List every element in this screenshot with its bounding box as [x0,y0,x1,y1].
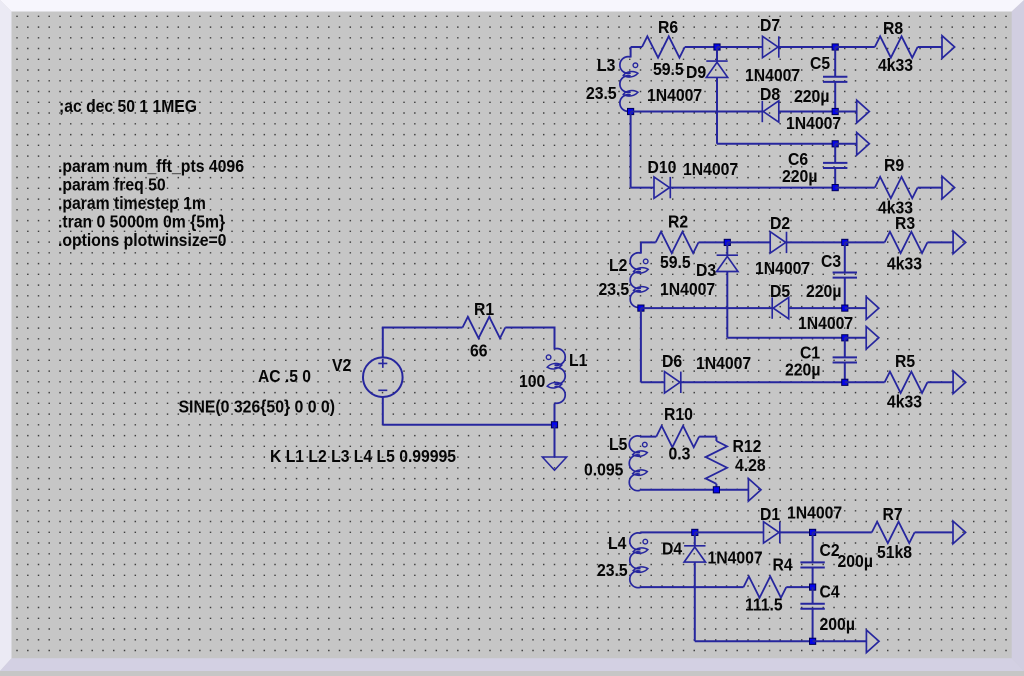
wire C3 top [844,242,846,272]
svg-text:D3: D3 [696,260,716,280]
wire C4 top [812,587,814,604]
svg-text:R7: R7 [883,504,903,524]
svg-text:.options plotwinsize=0: .options plotwinsize=0 [58,230,227,250]
wire node to R8 [835,46,875,48]
svg-text:0.095: 0.095 [584,460,624,480]
bezel left [0,0,12,671]
port arrow mid row L2 [866,327,879,350]
svg-text:V2: V2 [332,355,352,375]
node C3/D5 with port [842,305,848,311]
svg-text:1N4007: 1N4007 [786,113,841,133]
svg-text:D2: D2 [770,213,790,233]
bezel top [0,0,1024,12]
wire L3 top lead [630,47,632,58]
svg-text:AC .5 0: AC .5 0 [258,366,311,386]
svg-text:200µ: 200µ [820,614,855,634]
svg-text:D7: D7 [760,15,780,35]
wire L3 bottom to D8 [631,111,763,113]
svg-text:R5: R5 [895,351,915,371]
wire D5 to C3 bottom node [789,307,845,309]
svg-text:1N4007: 1N4007 [798,313,853,333]
svg-text:1N4007: 1N4007 [696,353,751,373]
svg-text:.param timestep 1m: .param timestep 1m [58,193,206,213]
wire R3 to port [927,241,953,243]
svg-text:100: 100 [519,371,546,391]
wire node to R3 [845,241,885,243]
wire R4 to C2 bottom node [786,586,812,588]
capacitor C6 [823,162,847,164]
svg-text:.tran 0 5000m 0m {5m}: .tran 0 5000m 0m {5m} [58,212,225,232]
svg-text:51k8: 51k8 [877,542,912,562]
wire D3 down to mid row [726,272,728,338]
wire L1 bottom lead [554,404,556,425]
wire L1 top lead [554,327,556,350]
voltage source V2 [363,357,403,397]
wire mid row D9 to C6 [717,143,835,145]
resistor R4 [744,576,787,597]
svg-text:C3: C3 [821,251,841,271]
diode D4 [684,547,705,562]
ground [542,457,566,470]
node C6 bottom / R9 [832,185,838,191]
svg-text:L1: L1 [569,350,588,370]
wire D4 anode drop [694,532,696,545]
wire L5 to R10 [640,436,656,438]
wire D8 to C5 bottom node [779,111,835,113]
wire L4 to D4 node [641,531,695,533]
inductor L3 [620,57,631,112]
wire R9 to port [918,187,942,189]
port arrow bottom row [866,630,879,653]
svg-text:K L1 L2 L3 L4 L5 0.99995: K L1 L2 L3 L4 L5 0.99995 [270,446,456,466]
svg-text:23.5: 23.5 [586,83,617,103]
svg-text:SINE(0 326{50} 0 0 0): SINE(0 326{50} 0 0 0) [179,397,336,417]
wire R2 to D3 node [699,241,728,243]
svg-text:D5: D5 [770,281,790,301]
wire R12 top lead [715,437,717,441]
wire R8 to port [918,46,942,48]
resistor R5 [885,372,928,393]
port arrow after R7 [953,521,966,544]
port arrow after D8 [857,100,870,123]
wire node to D7 [717,46,763,48]
svg-text:L3: L3 [597,55,616,75]
svg-text:220µ: 220µ [785,360,820,380]
wire node to port row2 [835,111,857,113]
resistor R10 [656,426,699,447]
svg-text:.param freq 50: .param freq 50 [58,175,166,195]
wire L2 bottom to D5 [641,307,772,309]
svg-text:1N4007: 1N4007 [660,279,715,299]
wire C5 top [834,47,836,77]
wire L3 bottom drop [630,112,632,188]
node D1/C2/R7 [810,529,816,535]
wire C6 top [834,144,836,163]
svg-text:L2: L2 [609,255,628,275]
node C1 bottom / R5 [842,379,848,385]
svg-text:C4: C4 [820,582,840,602]
wire D4 down to bottom row [694,562,696,641]
wire D9 anode drop [716,47,718,61]
wire to D6 [641,381,665,383]
capacitor C5 [823,76,847,78]
wire C1 top [844,338,846,358]
svg-text:R1: R1 [474,299,494,319]
capacitor C2 [800,561,824,563]
diode D9 [706,62,727,77]
wire node to port [813,640,867,642]
capacitor C1 [833,356,857,358]
wire D2 to C3 node [787,241,845,243]
svg-text:4k33: 4k33 [887,254,922,274]
wire L2 to R2 [641,241,656,243]
wire R5 to port [927,381,953,383]
svg-text:0.3: 0.3 [669,444,691,464]
svg-text:1N4007: 1N4007 [745,65,800,85]
wire D6 to C1 bottom node [681,381,845,383]
svg-text:1N4007: 1N4007 [683,159,738,179]
node mid row C6 top [832,141,838,147]
svg-text:R10: R10 [664,404,693,424]
svg-text:;ac dec 50 1 1MEG: ;ac dec 50 1 1MEG [59,96,197,116]
wire L2 top lead [640,242,642,253]
svg-text:220µ: 220µ [782,166,817,186]
wire node to R7 [813,531,872,533]
wire R6 to D9 node [685,46,717,48]
node at L1 bottom [551,422,557,428]
svg-text:D9: D9 [686,62,706,82]
svg-text:D1: D1 [760,504,780,524]
wire C5 bottom [834,82,836,112]
node D7/C5/R8 [832,44,838,50]
svg-text:1N4007: 1N4007 [647,85,702,105]
svg-text:4k33: 4k33 [887,392,922,412]
wire D9 down to mid row [716,77,718,143]
svg-text:23.5: 23.5 [597,560,628,580]
svg-text:59.5: 59.5 [660,252,691,272]
wire C3 bottom [844,278,846,309]
svg-text:23.5: 23.5 [599,279,630,299]
svg-text:D8: D8 [760,84,780,104]
svg-text:L4: L4 [608,533,627,553]
svg-text:R2: R2 [668,212,688,232]
svg-text:L5: L5 [609,434,628,454]
bezel bottom [0,658,1024,671]
wire node to R5 [845,381,885,383]
wire bottom row D4 to C4 [695,640,813,642]
diode D7 [763,36,779,57]
wire D3 anode drop [726,242,728,255]
wire L4 bottom to R4 [641,586,744,588]
resistor R9 [875,177,918,198]
resistor R8 [875,36,918,57]
wire V2 bottom [382,397,384,425]
svg-text:59.5: 59.5 [653,59,684,79]
wire R1 to L1 [505,327,554,329]
port arrow after R3 [953,231,966,254]
node L2 bottom [638,305,644,311]
wire V2 top [382,328,384,358]
port arrow after R5 [953,371,966,394]
node C4 bottom [810,638,816,644]
wire node to R9 [835,187,875,189]
svg-text:220µ: 220µ [806,281,841,301]
wire R10 to R12 [699,436,716,438]
svg-text:D10: D10 [648,157,677,177]
svg-text:1N4007: 1N4007 [708,548,763,568]
diode D1 [764,522,780,543]
node R2/D3/D2 [724,239,730,245]
svg-text:200µ: 200µ [838,551,873,571]
svg-text:1N4007: 1N4007 [755,258,810,278]
wire R7 to port [915,531,953,533]
wire node to port row3 [835,143,857,145]
resistor R6 [642,36,685,57]
capacitor C3 [833,272,857,274]
resistor R1 [463,317,506,338]
diode D10 [654,177,670,198]
node C5/D8 with port [832,108,838,114]
inductor L2 [630,253,641,308]
diode D8 [763,101,779,122]
diode D3 [717,256,738,271]
wire C6 bottom [834,168,836,188]
port arrow after R8 [942,36,955,59]
node R12 bottom [713,487,719,493]
node R6/D9/D7 [714,44,720,50]
port arrow L5 row [748,479,761,502]
svg-text:D4: D4 [662,539,682,559]
svg-text:D6: D6 [662,351,682,371]
wire D7 to C5 node [779,46,835,48]
wire node to D1 [695,531,764,533]
node C2/R4/C4 [810,584,816,590]
wire node to port [845,307,866,309]
svg-text:R4: R4 [773,555,793,575]
node L3 bottom [628,108,634,114]
wire D10 to C6 bottom node [670,187,835,189]
svg-text:.param num_fft_pts 4096: .param num_fft_pts 4096 [58,156,244,176]
capacitor C4 [800,603,824,605]
wire L5 bottom row [640,489,748,491]
wire D1 to C2 node [780,531,813,533]
resistor R3 [885,232,928,253]
wire C1 bottom [844,363,846,383]
svg-text:C5: C5 [810,53,830,73]
wire C2 top [812,532,814,562]
wire R12 bottom lead [715,484,717,490]
diode D5 [773,297,789,318]
svg-text:1N4007: 1N4007 [787,503,842,523]
port arrow after D5 [866,297,879,320]
wire node to port [845,337,866,339]
wire C4 bottom [812,609,814,642]
wire bottom row V2 to L1 [383,424,555,426]
svg-text:R12: R12 [733,436,762,456]
resistor R7 [872,522,915,543]
resistor R12 [706,441,727,484]
wire mid row D3 to C1 [727,337,845,339]
wire node to D2 [727,241,770,243]
inductor L1 [555,349,566,404]
svg-text:4k33: 4k33 [878,55,913,75]
svg-text:220µ: 220µ [794,86,829,106]
diode D6 [665,372,681,393]
inductor L4 [630,533,641,588]
svg-text:R8: R8 [883,18,903,38]
svg-text:R3: R3 [895,213,915,233]
node mid row C1 top [842,335,848,341]
svg-text:R9: R9 [884,155,904,175]
svg-text:R6: R6 [658,17,678,37]
wire L2 bottom drop [640,308,642,382]
wire L4 top lead [640,532,642,533]
svg-text:66: 66 [470,341,488,361]
svg-text:111.5: 111.5 [745,595,783,615]
port arrow mid row [857,133,870,156]
wire to ground [554,425,556,457]
diode D2 [770,232,786,253]
inductor L5 [629,436,640,491]
node D2/C3/R3 [842,239,848,245]
port arrow after R9 [942,176,955,199]
node L4/D4/D1 [692,529,698,535]
resistor R2 [656,232,699,253]
wire to D10 [631,187,654,189]
bezel right [1012,0,1024,671]
wire top row to R1 [382,327,463,329]
svg-text:4.28: 4.28 [735,455,766,475]
wire L3 to R6 [631,46,642,48]
wire C2 bottom [812,568,814,588]
